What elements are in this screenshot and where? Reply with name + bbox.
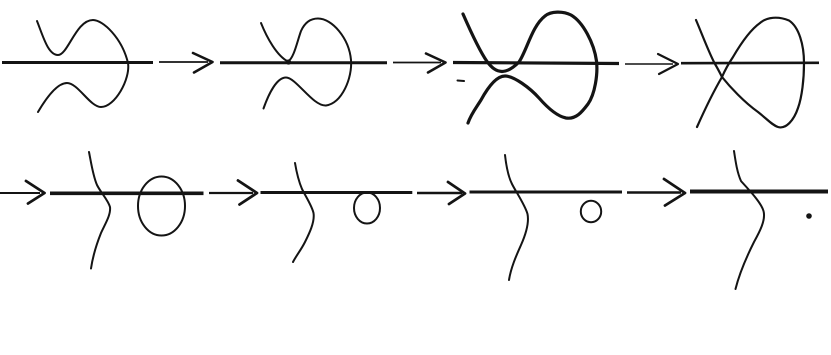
curve 2: wiggle tangent to the axis [261,19,351,109]
arrow 3 (between shape 3 and 4, thin) [625,63,673,65]
axis line 7 (bottom row, shape 7) [470,191,623,194]
curve 3: thick curve dipping below axis, near self-contact [463,12,597,123]
arrow 1 (between shape 1 and 2) [159,61,208,63]
tangency blob of curve 2 on axis [286,59,291,64]
oval 6: smaller oval touching the axis [354,193,380,224]
branch 6: wavy vertical branch [293,163,314,262]
arrow 6 (between shape 6 and 7) [417,192,462,194]
axis line 1 (top row, shape 1) [2,61,153,64]
stray dash mark below-left of shape 3 [458,80,465,83]
axis line 8 (bottom row, rightmost) [690,190,828,194]
arrow 2 (between shape 2 and 3) [393,62,441,64]
axis line 6 (bottom row, shape 6) [261,191,413,194]
dot 8: oval degenerated to a point [806,213,812,219]
axis line 4 (top row, shape 4) [681,61,819,64]
oval 7: small oval detached below the axis [581,201,601,222]
arrow 7 (between shape 7 and 8) [627,191,681,194]
branch 8: wavy vertical branch [734,151,764,289]
arrow 4 (bottom row, leftmost) [0,192,40,194]
branch 7: wavy vertical branch [505,155,528,280]
branch 5: wavy vertical branch [89,152,110,269]
arrow 5 (between shape 5 and 6) [209,192,253,194]
axis line 2 (top row, shape 2) [220,61,387,64]
oval 5: large oval component on the axis [138,177,185,236]
curve 4: nodal cubic, self-crossing with loop [696,18,804,128]
axis line 5 (bottom row, shape 5) [50,192,204,196]
axis line 3 (top row, shape 3) [453,63,619,64]
curve 1: smooth cubic curve with wiggle [37,20,128,112]
